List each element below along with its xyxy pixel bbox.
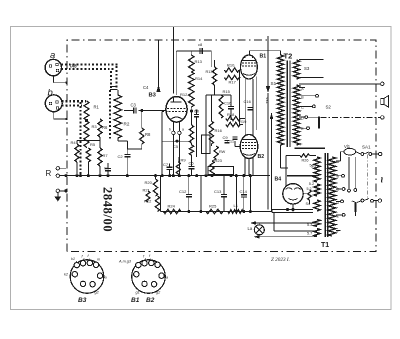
resistor R4 (71, 140, 80, 176)
wires r18 (240, 119, 245, 125)
svg-text:R13: R13 (195, 59, 203, 64)
capacitor C5 (173, 144, 179, 149)
svg-text:~: ~ (375, 177, 387, 184)
svg-text:C3: C3 (131, 103, 137, 108)
svg-text:La: La (248, 226, 253, 231)
T2 bottom wire (281, 143, 304, 169)
svg-text:RW: RW (219, 150, 226, 154)
resistor R2 (tall) (114, 90, 130, 149)
T1 secondary winding e (307, 229, 320, 237)
resistor R3 (84, 121, 97, 147)
wires mid block (206, 95, 231, 176)
heater wire middle (274, 213, 316, 231)
loudspeaker icon (381, 96, 389, 107)
resistor R22 (144, 196, 160, 212)
resistor R26 (286, 154, 316, 186)
svg-text:R8: R8 (145, 132, 151, 137)
svg-text:S1: S1 (271, 81, 277, 86)
resistor R13 (189, 55, 203, 72)
drawing number 2848/00 (101, 187, 115, 232)
svg-text:R12: R12 (180, 92, 188, 97)
svg-text:g1: g1 (136, 291, 140, 295)
wire x250.3 (249, 176, 251, 212)
T1 core (325, 153, 328, 237)
svg-text:R4: R4 (71, 140, 77, 145)
switch linkage (366, 155, 368, 200)
resistor R17b (214, 146, 226, 159)
switch S1 arrow (266, 60, 277, 210)
valve socket B3 (bottom view) (64, 254, 107, 304)
svg-text:R22: R22 (144, 199, 152, 204)
resistor R23 (210, 158, 223, 175)
capacitor C9 (223, 135, 230, 143)
B1 top wires (250, 36, 281, 60)
svg-text:5.2: 5.2 (309, 182, 314, 186)
capacitor C2 (118, 149, 131, 176)
T1 primary winding (328, 157, 336, 236)
svg-text:C5: C5 (173, 144, 179, 149)
svg-text:C4: C4 (143, 85, 149, 90)
svg-text:R16: R16 (215, 128, 223, 133)
tube B1 (241, 54, 267, 80)
resistor R12 (180, 90, 194, 111)
svg-text:B2: B2 (258, 154, 265, 160)
T1 secondary winding b (309, 182, 320, 196)
svg-text:C2: C2 (118, 154, 124, 159)
output line bottom (321, 116, 384, 119)
svg-text:m: m (97, 258, 100, 262)
svg-text:a: a (166, 276, 168, 280)
resistor R18 (226, 112, 240, 121)
chassis shield boundary (dash-dot box) (67, 40, 376, 252)
svg-text:C7: C7 (163, 162, 169, 167)
choke L1 (228, 203, 243, 213)
svg-text:b: b (48, 88, 53, 99)
capacitor C8b (194, 109, 199, 157)
B2 pin wires (245, 158, 253, 176)
svg-text:R14: R14 (195, 76, 203, 81)
T2 secondary S3 (293, 60, 323, 80)
svg-text:R25: R25 (209, 204, 217, 209)
tube B2 (240, 135, 264, 161)
wire x200.8 (200, 176, 202, 212)
wire x236.3 (235, 176, 237, 212)
svg-text:2848/00: 2848/00 (101, 187, 115, 232)
svg-text:C: C (337, 188, 340, 192)
resistor R9 (176, 157, 186, 176)
bottom supply rail (161, 210, 273, 213)
cross wire y141 (162, 140, 191, 143)
heater wire top (250, 221, 315, 225)
ground bus wire (60, 174, 271, 177)
svg-text:R9: R9 (181, 158, 187, 163)
grid return wire (161, 111, 163, 175)
resistor R1 (84, 101, 100, 122)
resistor R25 (206, 204, 223, 214)
svg-text:a: a (182, 128, 184, 132)
resistor R19 (226, 119, 247, 127)
component box C10 (202, 135, 211, 154)
heater wire bottom (254, 235, 316, 239)
input socket a (pickup connector) (45, 50, 68, 84)
input socket b (gramophone connector) (45, 88, 67, 121)
Vk1 rotated label (265, 97, 270, 105)
svg-text:R15: R15 (223, 89, 231, 94)
ground symbol (54, 193, 61, 202)
capacitor C11 (227, 137, 238, 144)
resistor R13v (206, 67, 217, 85)
svg-text:B1: B1 (260, 54, 267, 60)
capacitor C12 (179, 176, 192, 212)
svg-text:C12: C12 (179, 189, 187, 194)
capacitor C4 arrow (143, 41, 161, 93)
T2 core (287, 61, 290, 148)
svg-text:5.7: 5.7 (307, 232, 312, 236)
svg-text:Vk1: Vk1 (265, 97, 270, 105)
svg-text:R21: R21 (143, 188, 151, 193)
svg-text:B3: B3 (149, 93, 157, 99)
resistor R24 (164, 204, 182, 214)
resistor R5m (189, 109, 193, 143)
svg-text:5.3: 5.3 (311, 165, 316, 169)
B1 pin wires down (240, 70, 257, 135)
rail double wires to T1 (272, 208, 313, 213)
capacitor C1 (104, 163, 111, 176)
resistor R7 (98, 148, 109, 166)
resistor R6 (98, 119, 108, 137)
svg-text:R1: R1 (94, 105, 100, 110)
screened cable from socket a (61, 64, 119, 140)
capacitor C3 (124, 103, 166, 114)
capacitor C13 (214, 176, 227, 212)
svg-text:S4: S4 (306, 202, 311, 206)
svg-text:R13: R13 (206, 70, 213, 74)
resistor R21 (143, 188, 151, 203)
svg-text:C13: C13 (214, 189, 222, 194)
svg-text:R3: R3 (92, 124, 98, 129)
B2 grid wire (235, 141, 240, 147)
svg-text:R17: R17 (229, 80, 237, 85)
grid cap wire B3 (172, 27, 174, 94)
resistor R8 (127, 109, 151, 149)
svg-text:B2: B2 (146, 297, 155, 304)
svg-text:B1: B1 (131, 297, 140, 304)
svg-text:R24: R24 (168, 204, 176, 209)
T1 secondary winding a (311, 157, 320, 182)
capacitor C7 (163, 162, 173, 176)
svg-text:R18: R18 (227, 112, 235, 117)
resistor R5n (189, 143, 193, 160)
svg-text:R7: R7 (103, 153, 109, 158)
T2 primary winding (277, 55, 283, 145)
transformer T2 label (284, 51, 293, 60)
B4 wires (293, 187, 312, 212)
svg-text:B3: B3 (78, 297, 87, 304)
resistor R10 (225, 63, 240, 73)
resistor R17 (225, 75, 240, 84)
T2 secondary taps (293, 85, 331, 145)
output line top (299, 82, 384, 85)
capacitor C16b (244, 99, 253, 110)
resistor R5 (86, 142, 96, 176)
capacitor C14 (240, 176, 248, 212)
svg-text:R: R (46, 169, 52, 178)
capacitor C6 (189, 160, 195, 176)
mains symbol (375, 177, 387, 184)
svg-text:TA8: TA8 (69, 64, 77, 69)
wire left column joins (77, 137, 100, 176)
svg-text:R5: R5 (90, 142, 96, 147)
wire x272 with up arrow (270, 113, 274, 212)
valve socket B1 B2 (bottom view) (118, 254, 168, 304)
cluster wires (156, 176, 161, 212)
electrolytic box (208, 167, 234, 175)
svg-text:B4: B4 (275, 177, 282, 183)
svg-text:S2: S2 (326, 104, 332, 109)
resistor R14 (189, 72, 204, 90)
screened cable from socket b (62, 101, 87, 175)
svg-text:R26: R26 (302, 159, 309, 163)
svg-text:A.m.g3: A.m.g3 (118, 260, 132, 264)
svg-text:C16: C16 (244, 99, 252, 104)
tube B4 (275, 177, 304, 205)
svg-text:a: a (50, 50, 55, 61)
selector risers (348, 157, 357, 192)
separator line above T1 (295, 147, 326, 149)
resistor R15 (219, 89, 231, 118)
capacitor C8 top (198, 42, 203, 54)
svg-text:k1: k1 (71, 257, 75, 261)
svg-text:R19: R19 (239, 119, 247, 124)
svg-text:R2: R2 (124, 122, 130, 127)
svg-text:R20: R20 (145, 180, 153, 185)
lamp La (248, 223, 265, 237)
HT line into T1 (287, 175, 317, 177)
svg-text:a: a (105, 276, 107, 280)
svg-text:T1: T1 (321, 242, 329, 249)
page border frame (11, 27, 392, 310)
T1 secondary winding c (306, 200, 321, 211)
svg-text:R6: R6 (102, 125, 108, 130)
tube B3 (149, 93, 188, 123)
resistor R16 (209, 121, 223, 144)
resistor R20 (145, 179, 158, 196)
drawing code Z 2023 I (271, 257, 290, 263)
svg-text:b: b (169, 128, 171, 132)
fuse Vl1 (341, 144, 356, 161)
svg-text:R10: R10 (227, 63, 235, 68)
svg-text:S3: S3 (304, 66, 310, 71)
capacitor C16 label (224, 95, 234, 120)
B4 side wires (271, 176, 283, 210)
T1 label (321, 242, 329, 249)
terminal R pair (46, 167, 67, 178)
label 5.2a (310, 164, 315, 168)
switch SA1 (352, 145, 382, 217)
plate loop above B3 (176, 51, 211, 95)
grid wires B1 (215, 60, 241, 95)
T1 primary taps (336, 160, 345, 234)
ground terminal (56, 189, 68, 192)
svg-text:Z 2023 I.: Z 2023 I. (271, 257, 290, 263)
T1 secondary winding d (307, 220, 320, 228)
tube B3 pins below (169, 121, 184, 176)
svg-text:5.3: 5.3 (307, 223, 312, 227)
svg-text:SA1: SA1 (362, 145, 371, 150)
